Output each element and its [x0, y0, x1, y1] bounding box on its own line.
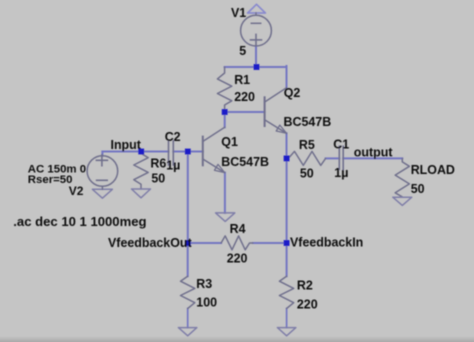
svg-text:R5: R5: [299, 138, 315, 152]
svg-text:VfeedbackOut: VfeedbackOut: [108, 236, 192, 250]
svg-text:output: output: [354, 145, 393, 159]
svg-text:1µ: 1µ: [166, 158, 180, 172]
svg-text:Q2: Q2: [284, 86, 301, 100]
svg-text:V2: V2: [69, 184, 84, 198]
svg-text:Input: Input: [111, 138, 141, 152]
svg-text:R3: R3: [196, 277, 212, 291]
svg-text:VfeedbackIn: VfeedbackIn: [290, 236, 363, 250]
svg-text:R6: R6: [150, 156, 166, 170]
svg-text:1µ: 1µ: [334, 166, 348, 180]
svg-text:100: 100: [196, 296, 217, 310]
svg-text:C1: C1: [333, 137, 349, 151]
svg-text:220: 220: [234, 90, 255, 104]
svg-text:BC547B: BC547B: [284, 115, 332, 129]
svg-text:5: 5: [239, 44, 246, 58]
svg-text:50: 50: [300, 166, 314, 180]
svg-text:.ac dec 10 1 1000meg: .ac dec 10 1 1000meg: [13, 214, 146, 229]
svg-text:Rser=50: Rser=50: [28, 174, 73, 186]
svg-text:C2: C2: [165, 130, 181, 144]
svg-text:RLOAD: RLOAD: [411, 163, 455, 177]
svg-text:R1: R1: [234, 73, 250, 87]
svg-text:50: 50: [411, 182, 425, 196]
svg-text:BC547B: BC547B: [221, 155, 269, 169]
svg-text:Q1: Q1: [221, 135, 238, 149]
svg-text:R2: R2: [297, 279, 313, 293]
svg-text:V1: V1: [231, 6, 246, 20]
svg-text:50: 50: [151, 172, 165, 186]
svg-text:220: 220: [297, 297, 318, 311]
svg-text:220: 220: [227, 252, 248, 266]
svg-text:R4: R4: [230, 222, 246, 236]
